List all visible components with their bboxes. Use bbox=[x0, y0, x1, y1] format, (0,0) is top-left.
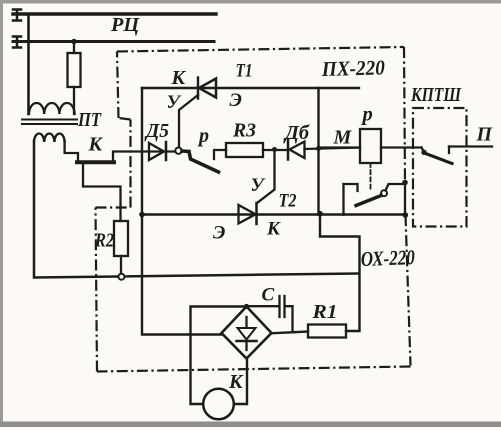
svg-text:R2: R2 bbox=[94, 230, 114, 252]
svg-text:р: р bbox=[197, 125, 209, 147]
svg-text:РЦ: РЦ bbox=[110, 14, 140, 36]
svg-text:ОХ-220: ОХ-220 bbox=[360, 245, 415, 271]
svg-text:Т2: Т2 bbox=[279, 191, 297, 212]
svg-text:У: У bbox=[251, 175, 266, 196]
svg-text:Т1: Т1 bbox=[236, 61, 253, 82]
svg-text:ПХ-220: ПХ-220 bbox=[321, 55, 386, 81]
svg-text:р: р bbox=[361, 104, 373, 126]
svg-text:Э: Э bbox=[230, 90, 242, 111]
svg-text:R1: R1 bbox=[311, 301, 337, 323]
svg-text:R3: R3 bbox=[232, 120, 256, 142]
svg-text:М: М bbox=[333, 127, 353, 149]
svg-text:Э: Э bbox=[213, 223, 225, 244]
svg-text:К: К bbox=[228, 371, 244, 393]
svg-text:ПТ: ПТ bbox=[77, 109, 101, 131]
svg-text:С: С bbox=[262, 285, 275, 306]
svg-text:К: К bbox=[266, 219, 281, 240]
svg-text:К: К bbox=[171, 67, 187, 89]
svg-text:Дб: Дб bbox=[283, 122, 310, 144]
svg-text:КПТШ: КПТШ bbox=[410, 84, 462, 106]
svg-text:К: К bbox=[88, 134, 104, 156]
svg-text:Д5: Д5 bbox=[144, 120, 169, 142]
svg-text:П: П bbox=[476, 124, 494, 146]
svg-text:У: У bbox=[167, 92, 182, 113]
